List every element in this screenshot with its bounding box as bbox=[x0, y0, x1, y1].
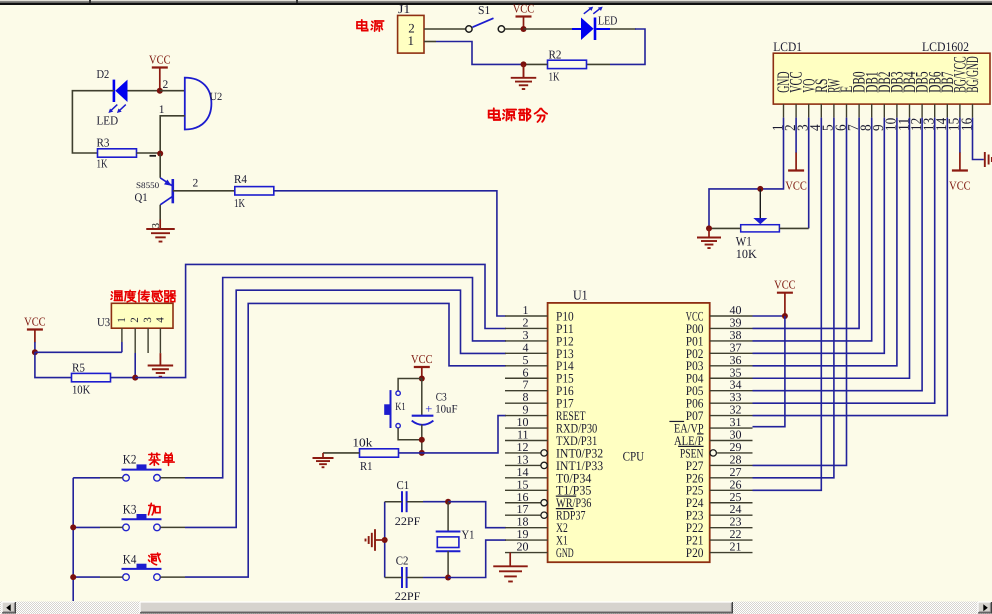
svg-text:R5: R5 bbox=[72, 361, 85, 375]
VCC power port (gate) bbox=[152, 66, 168, 68]
svg-text:1K: 1K bbox=[97, 157, 108, 171]
node: W1 wiper junction bbox=[757, 186, 763, 192]
VCC power port bbox=[516, 15, 532, 17]
pin 25 P24 bbox=[710, 502, 753, 504]
pin 1 P10 bbox=[505, 315, 548, 317]
pin 6 P15 bbox=[505, 377, 548, 379]
wire VCC node to K1 top bbox=[398, 379, 422, 392]
wire LCD pin7 to CPU P39 bbox=[753, 118, 860, 329]
pin 14 T0/P34 bbox=[505, 477, 548, 479]
VCC power port (LCD pin15) bbox=[952, 169, 968, 171]
ground (Q1) bbox=[159, 220, 161, 230]
wire LCD pin5 to CPU P27 bbox=[753, 118, 834, 478]
svg-text:Q1: Q1 bbox=[135, 192, 148, 204]
label 电源部分 (power section) bbox=[489, 111, 499, 118]
VCC power port (LCD pin2) bbox=[788, 169, 804, 171]
node: gate input junction bbox=[157, 88, 163, 94]
svg-text:22PF: 22PF bbox=[395, 516, 421, 528]
pin 35 P04 bbox=[710, 377, 753, 379]
svg-text:2: 2 bbox=[129, 317, 141, 323]
node: C3 bottom junction bbox=[419, 437, 425, 443]
pin 2 P11 bbox=[505, 327, 548, 329]
pin 8 P17 bbox=[505, 402, 548, 404]
pin 36 P03 bbox=[710, 365, 753, 367]
wire VCC to U3 pin1 bbox=[35, 351, 122, 353]
svg-text:U3: U3 bbox=[97, 315, 110, 329]
wire R1 left to ground bbox=[323, 452, 360, 454]
svg-text:C1: C1 bbox=[397, 478, 410, 492]
svg-text:R1: R1 bbox=[360, 459, 373, 473]
pin 16 WR/P36 bbox=[505, 502, 541, 504]
pin 7 P16 bbox=[505, 390, 548, 392]
svg-text:10k: 10k bbox=[352, 435, 372, 449]
scrollbar left button bbox=[2, 602, 16, 614]
LED arrows bbox=[584, 8, 591, 14]
svg-text:1K: 1K bbox=[234, 196, 245, 210]
wire LCD1 GND to W1 bbox=[709, 118, 784, 229]
pin 37 P02 bbox=[710, 352, 753, 354]
svg-text:R3: R3 bbox=[97, 136, 110, 150]
node: K3 junction bbox=[70, 524, 76, 530]
ground (CPU pin20) bbox=[509, 553, 511, 567]
svg-text:10K: 10K bbox=[736, 247, 757, 261]
pin 13 INT1/P33 bbox=[505, 464, 541, 466]
wire K2 left to trunk bbox=[100, 477, 123, 479]
wire gate pin1 down to node bbox=[160, 116, 185, 152]
wire K2 right to CPU bbox=[160, 477, 185, 479]
pin 11 TXD/P31 bbox=[505, 440, 548, 442]
node: base junction bbox=[157, 151, 163, 157]
wire VCC to pin40 bbox=[753, 315, 785, 317]
ground (W1) bbox=[708, 228, 710, 237]
wire W1 left bbox=[709, 227, 741, 229]
VCC power port (reset) bbox=[414, 366, 430, 368]
pin 33 P06 bbox=[710, 402, 753, 404]
VCC power port (sensor) bbox=[27, 328, 43, 330]
svg-text:LED: LED bbox=[97, 114, 119, 128]
wire LCD pin4 to CPU P26 bbox=[753, 118, 822, 491]
svg-text:U2: U2 bbox=[210, 91, 223, 103]
wire R2 to ground node bbox=[524, 63, 548, 65]
capacitor C3 10uF bbox=[421, 379, 423, 416]
node: left rail ground junction bbox=[382, 537, 388, 543]
wire crystal left rail bbox=[384, 502, 386, 578]
wire LCD pin9 to CPU P37 bbox=[753, 118, 885, 354]
pin 30 ALE/P bbox=[710, 440, 753, 442]
wire VCC down to EA/VP bbox=[753, 316, 785, 427]
button ground trunk wire bbox=[72, 478, 74, 601]
svg-text:K1: K1 bbox=[395, 401, 406, 413]
svg-text:J1: J1 bbox=[398, 2, 410, 16]
wire LCD pin13 to CPU P33 bbox=[753, 118, 935, 404]
wire J1 pin2 to S1 bbox=[424, 28, 466, 30]
wire W1 right to VO bbox=[779, 227, 808, 229]
pin 17 RDP37 bbox=[505, 514, 541, 516]
ground (U3 pin4) bbox=[159, 353, 161, 365]
wire LCD pin6 to CPU P28 bbox=[753, 118, 847, 466]
svg-text:R4: R4 bbox=[234, 172, 247, 186]
label 电源 (power) bbox=[357, 22, 367, 29]
svg-text:20: 20 bbox=[517, 540, 529, 554]
VCC power port (CPU) bbox=[777, 292, 793, 294]
wire J1 pin1 loop bbox=[424, 41, 436, 43]
wire D2 cathode to node bbox=[128, 90, 160, 92]
wire C1 to Y1 top node bbox=[423, 501, 448, 503]
svg-text:1K: 1K bbox=[549, 70, 560, 84]
D2 arrows bbox=[111, 105, 118, 111]
pin 15 T1/P35 bbox=[505, 489, 548, 491]
wire LCD VCC pin2 bbox=[795, 118, 797, 153]
node: W1 ground junction bbox=[706, 225, 712, 231]
pin 10 RXD/P30 bbox=[505, 427, 548, 429]
node: R1 junction bbox=[419, 450, 425, 456]
svg-text:S1: S1 bbox=[478, 3, 490, 17]
pin 40 VCC bbox=[710, 315, 753, 317]
svg-text:K2: K2 bbox=[123, 451, 137, 466]
wire LCD pin12 to CPU P34 bbox=[753, 118, 923, 391]
pin 18 X2 bbox=[505, 527, 548, 529]
ground (R1) bbox=[322, 453, 324, 458]
svg-text:1: 1 bbox=[408, 33, 415, 48]
pin 12 INT0/P32 bbox=[505, 452, 541, 454]
svg-text:2: 2 bbox=[193, 178, 199, 190]
node: Y1 top junction bbox=[445, 499, 451, 505]
pin 28 P27 bbox=[710, 464, 753, 466]
svg-text:S8550: S8550 bbox=[136, 180, 159, 190]
wire VCC node down to R5 bbox=[35, 352, 72, 377]
svg-text:VCC: VCC bbox=[513, 2, 535, 16]
svg-text:GND: GND bbox=[556, 545, 574, 560]
wire R4 to CPU P10 bbox=[274, 191, 506, 316]
pin 26 P25 bbox=[710, 489, 753, 491]
svg-text:VCC: VCC bbox=[949, 179, 971, 193]
svg-text:LCD1: LCD1 bbox=[773, 39, 802, 54]
svg-text:VCC: VCC bbox=[149, 53, 171, 67]
wire R3 to node bbox=[137, 152, 159, 154]
W1 wiper arrow bbox=[759, 189, 761, 219]
node: VCC junction pin40 bbox=[782, 313, 788, 319]
svg-text:4: 4 bbox=[155, 317, 167, 323]
pin 39 P00 bbox=[710, 327, 753, 329]
svg-text:P20: P20 bbox=[686, 545, 704, 560]
wire top rail to CPU X2 bbox=[448, 502, 506, 528]
op-amp/gate U2 bbox=[185, 78, 212, 130]
wire LCD pin11 to CPU P35 bbox=[753, 118, 910, 379]
window top bar bbox=[0, 0, 992, 1]
wire K1 bottom to C3 node bbox=[398, 428, 422, 440]
pin 4 P13 bbox=[505, 352, 548, 354]
scrollbar thumb bbox=[140, 602, 733, 614]
pin 9 RESET bbox=[505, 415, 548, 417]
crystal Y1 bbox=[447, 502, 449, 532]
svg-text:VCC: VCC bbox=[785, 179, 807, 193]
svg-text:VCC: VCC bbox=[24, 315, 46, 329]
node: K4 junction bbox=[70, 574, 76, 580]
pin 23 P22 bbox=[710, 527, 753, 529]
wire S1 to VCC node bbox=[505, 28, 524, 30]
wire LCD VO pin3 to W1 bbox=[808, 118, 810, 229]
pin 27 P26 bbox=[710, 477, 753, 479]
pin 38 P01 bbox=[710, 340, 753, 342]
label 温度传感器 (temperature sensor) bbox=[112, 292, 113, 293]
svg-text:10K: 10K bbox=[72, 383, 91, 397]
svg-text:Y1: Y1 bbox=[462, 527, 475, 541]
base pin tick bbox=[150, 155, 157, 157]
pin 21 P20 bbox=[710, 552, 753, 554]
node: VCC junction (C3 top) bbox=[419, 376, 425, 382]
wire LED to R2 (right loop) bbox=[596, 28, 610, 30]
svg-text:CPU: CPU bbox=[623, 448, 645, 463]
wire ground stub bbox=[375, 539, 385, 541]
wire Q1 emitter down bbox=[159, 205, 161, 220]
pin 32 P07 bbox=[710, 415, 753, 417]
svg-text:1: 1 bbox=[116, 317, 128, 323]
wire K3 left to trunk bbox=[100, 526, 123, 528]
pin 31 EA/VP bbox=[710, 427, 753, 429]
wire left loop D2 to R3 bbox=[72, 91, 114, 153]
svg-text:21: 21 bbox=[730, 540, 742, 554]
wire LCD BG/GND pin16 bbox=[973, 118, 984, 160]
pin 19 X1 bbox=[505, 539, 548, 541]
svg-text:C2: C2 bbox=[396, 554, 409, 568]
wire node to gate pin2 bbox=[160, 90, 185, 92]
pin 20 GND bbox=[505, 552, 548, 554]
ground (power section) bbox=[523, 64, 525, 77]
svg-text:+: + bbox=[425, 402, 432, 416]
svg-text:LED: LED bbox=[598, 14, 617, 28]
pin 5 P14 bbox=[505, 365, 548, 367]
node: sensor VCC junction bbox=[32, 349, 38, 355]
wire VCC node to LED anode bbox=[524, 28, 573, 30]
ground (LCD, rotated right) bbox=[984, 152, 986, 167]
wire sensor signal to CPU P11 bbox=[135, 264, 506, 377]
svg-text:LCD1602: LCD1602 bbox=[922, 39, 969, 54]
svg-text:U1: U1 bbox=[573, 287, 588, 302]
wire R5 to node bbox=[111, 377, 136, 379]
svg-text:3: 3 bbox=[142, 317, 154, 323]
node: sensor signal junction bbox=[132, 375, 138, 381]
svg-text:BG/GND: BG/GND bbox=[962, 56, 982, 93]
pin 24 P23 bbox=[710, 514, 753, 516]
wire K3 right to CPU bbox=[160, 526, 185, 528]
U3 pin stubs bbox=[121, 328, 123, 342]
svg-text:3: 3 bbox=[151, 223, 162, 228]
ground (crystal, rotated) bbox=[374, 529, 376, 551]
wire LCD pin10 to CPU P36 bbox=[753, 118, 897, 366]
svg-text:VCC: VCC bbox=[774, 278, 796, 292]
node: ground junction dot bbox=[521, 61, 527, 67]
wire LCD BG/VCC pin15 bbox=[959, 118, 961, 153]
pin 29 PSEN bbox=[717, 452, 752, 454]
wire C2 to Y1 bottom node bbox=[423, 577, 448, 579]
svg-text:VCC: VCC bbox=[411, 352, 433, 366]
wire node down to Q1 base bbox=[159, 154, 161, 178]
wire LCD pin14 to CPU P32 bbox=[753, 118, 948, 416]
pin 34 P05 bbox=[710, 390, 753, 392]
svg-text:K4: K4 bbox=[123, 551, 137, 566]
scrollbar right button bbox=[978, 602, 992, 614]
pin 3 P12 bbox=[505, 340, 548, 342]
svg-text:K3: K3 bbox=[123, 502, 137, 517]
svg-text:2: 2 bbox=[163, 79, 169, 91]
wire Q1 collector to R4 bbox=[173, 190, 235, 192]
svg-text:C3: C3 bbox=[436, 392, 447, 404]
svg-text:D2: D2 bbox=[97, 67, 110, 81]
node: VCC junction dot bbox=[521, 26, 527, 32]
wire bottom rail to CPU X1 bbox=[448, 540, 506, 577]
wire K4 right to CPU bbox=[160, 576, 185, 578]
wire K4 left to trunk bbox=[100, 576, 123, 578]
wire R1 node to CPU RESET bbox=[399, 416, 507, 453]
node: Y1 bottom junction bbox=[445, 575, 451, 581]
svg-text:1: 1 bbox=[159, 104, 165, 116]
svg-text:22PF: 22PF bbox=[395, 591, 421, 603]
svg-text:10uF: 10uF bbox=[435, 404, 457, 416]
wire LCD pin8 to CPU P38 bbox=[753, 118, 872, 341]
pin 22 P21 bbox=[710, 539, 753, 541]
